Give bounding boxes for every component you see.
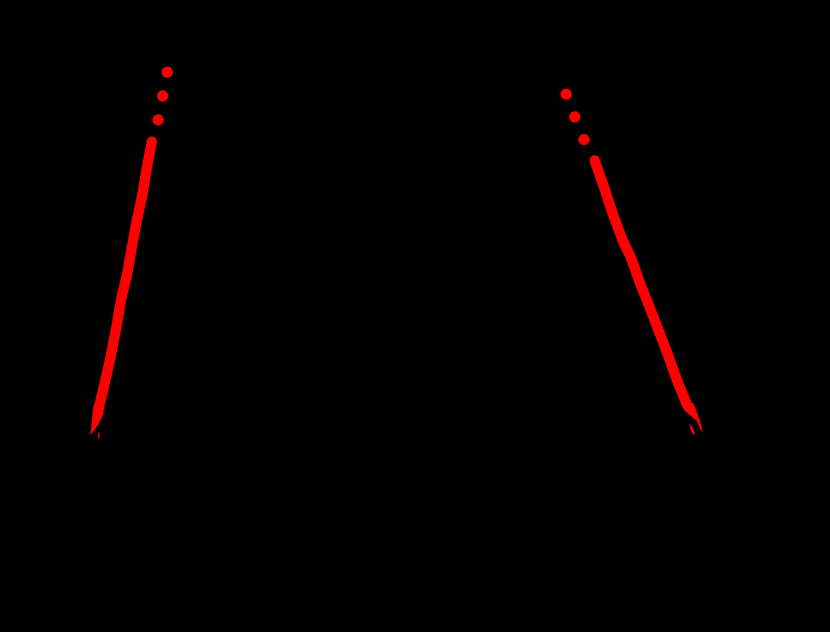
right sight-line dotted extension: dot 3 (578, 134, 589, 145)
left sight-line dotted extension: dot 1 (162, 67, 173, 78)
left line tip carved by black eye outline (90, 405, 104, 435)
right line tip carved by black eye outline (682, 403, 702, 433)
right sight-line dotted extension: dot 2 (569, 111, 580, 122)
left sight-line dotted extension: dot 2 (157, 90, 168, 101)
left sight-line dotted extension: dot 3 (153, 114, 164, 125)
left red arrow barb sliver (98, 432, 100, 439)
right sight-line dotted extension: dot 1 (561, 89, 572, 100)
right red sight-line stroke (595, 160, 687, 404)
left red sight-line stroke (99, 142, 152, 407)
right red arrow barb streak (690, 424, 695, 435)
